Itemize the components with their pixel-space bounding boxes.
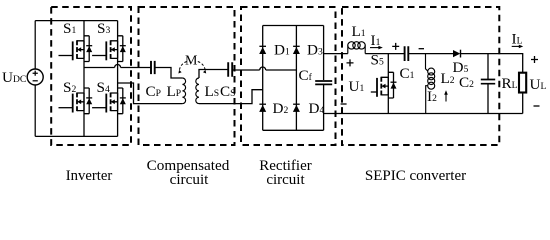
wire: S5 leg <box>387 54 389 114</box>
wire: Ls bottom to rectifier left branch <box>199 90 263 104</box>
label U1 minus <box>341 103 347 105</box>
label U1 plus <box>347 59 354 66</box>
transistor S1 <box>73 36 93 62</box>
diode D3 <box>293 45 300 47</box>
box: Compensated circuit dashed border <box>139 7 235 145</box>
box: SEPIC converter dashed border <box>342 7 499 145</box>
diode D5 <box>453 50 460 57</box>
wire: rectifier right branch <box>295 26 297 131</box>
wire: SEPIC bottom rail <box>324 113 523 115</box>
transistor S2 <box>73 88 93 114</box>
wire: Cs to rectifier right branch with hop over left branch <box>232 67 296 70</box>
capacitor Cs <box>228 62 232 77</box>
box: Inverter dashed border <box>51 7 131 145</box>
wire: Cf branch <box>323 26 325 131</box>
svg-text:circuit: circuit <box>170 171 210 188</box>
wire: inverter right leg <box>117 21 119 137</box>
diode D4 <box>293 103 300 105</box>
capacitor Cp <box>151 61 155 74</box>
wire: inverter top rail <box>35 20 117 22</box>
current I2 arrow <box>445 93 447 102</box>
diode D1 <box>259 45 266 47</box>
capacitor Cf <box>315 81 332 84</box>
transistor S4 <box>106 88 126 114</box>
wire: rectifier left branch <box>262 26 264 131</box>
inductor L2 <box>426 54 435 114</box>
label UL plus <box>531 56 538 63</box>
svg-text:Inverter: Inverter <box>66 168 113 184</box>
wire: Lp bottom to inverter output B <box>118 83 183 104</box>
capacitor C1 <box>405 46 409 61</box>
inductor Lp <box>182 78 185 104</box>
svg-text:circuit: circuit <box>266 172 305 188</box>
svg-text:SEPIC converter: SEPIC converter <box>365 168 466 184</box>
wire: C2 branch <box>487 54 489 114</box>
mutual coupling dashed arrow <box>179 62 187 72</box>
wire: inverter left leg <box>83 21 85 137</box>
transistor S3 <box>106 36 126 62</box>
wire: Cp to Lp top <box>155 68 183 79</box>
inductor L1 <box>348 42 365 54</box>
box: Rectifier circuit dashed border <box>241 7 336 145</box>
transistor S5 <box>377 72 397 98</box>
diode D2 <box>259 103 266 105</box>
wire: Ls top to Cs <box>199 70 228 79</box>
label UL minus <box>534 105 540 107</box>
wire: inverter output A to Cp with hop over right leg <box>84 65 151 68</box>
resistor RL <box>519 73 526 93</box>
current I1 arrow <box>370 47 381 49</box>
wire: SEPIC top wire <box>324 54 523 73</box>
inductor Ls <box>196 78 199 104</box>
source UDC <box>27 21 43 137</box>
wire: inverter bottom rail <box>35 135 117 137</box>
svg-text:M: M <box>185 54 198 69</box>
wire: rectifier top rail <box>263 25 324 27</box>
capacitor C2 <box>481 80 495 84</box>
current IL arrow <box>512 45 521 47</box>
capacitor C1 minus <box>419 48 424 50</box>
wire: rectifier bottom rail <box>263 129 324 131</box>
capacitor C1 plus <box>392 43 399 50</box>
